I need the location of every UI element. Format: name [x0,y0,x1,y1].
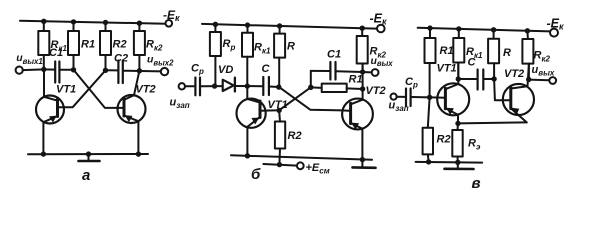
wire to u_vyh terminal (v) [529,79,550,82]
svg-text:в: в [472,175,481,192]
node: collector VT1 / Rk1 bottom [41,67,46,72]
svg-text:C2: C2 [114,53,128,65]
resistor Rk2 [134,23,163,71]
svg-text:R: R [503,47,511,59]
resistor R (b) [274,26,295,87]
node: R bottom / base VT2 coupling (v) [491,76,496,81]
svg-text:C: C [468,57,477,69]
svg-text:а: а [82,167,90,184]
svg-text:-Eк: -Eк [163,8,180,23]
wire collector node to C1 [44,68,55,70]
transistor VT1 [36,69,76,154]
node: R1 top (v) [427,25,432,30]
node: collector VT2 / Rk2 bottom [137,68,142,73]
node: Rk2 top (v) [525,28,530,33]
wire input to Cp [185,85,195,87]
node: R top (v) [491,27,496,32]
wire input to Cp (v) [397,96,406,98]
capacitor Cp (b) [191,63,204,96]
terminal u_vyh2 output [147,54,174,76]
capacitor Cp (v) [405,76,418,106]
svg-text:VT1: VT1 [56,84,76,96]
resistor R2 (v) [423,128,451,162]
node: emitter VT2 on rail [136,151,141,156]
ground (v) [445,162,474,169]
svg-text:VT2: VT2 [366,85,386,97]
svg-text:VT1: VT1 [268,99,288,111]
wire +Esm line [263,164,297,166]
resistor Rk2 (v) [522,31,550,80]
wire coupling R bottom node to base VT2 [279,87,342,110]
svg-text:Rк2: Rк2 [534,50,551,64]
wire collector VT2 vertical (v) [528,64,529,87]
svg-text:R2: R2 [288,130,302,142]
node: Rk1 top junction [41,19,46,24]
node: Rp bottom / diode anode [212,83,217,88]
svg-text:R: R [287,41,295,53]
resistor Re (v) [452,123,481,162]
wire cross-coupling R1 bottom to base VT2 [74,70,125,108]
node: Rk1 top [245,22,250,27]
node: emitter VT1 on rail [41,151,46,156]
node: C1/R1 left junction [308,85,313,90]
wire C1 right to collector VT2 line [336,70,363,73]
terminal u_vyh (b) [371,55,394,76]
node: C1 right junction [360,69,365,74]
wire base VT1 diagonal [260,87,311,110]
ground (b) [353,160,376,168]
wire top supply rail v [418,28,551,32]
wire collector VT2 vertical [362,64,364,100]
svg-text:uвых: uвых [532,64,555,78]
node: R1 bottom / cross-coupling to VT2 base [71,67,76,72]
wire C1 left [311,70,330,72]
terminal u_zap input of circuit b [170,83,190,110]
node: base VT1 / R1-R2 junction (v) [427,95,432,100]
svg-text:R2: R2 [113,39,127,51]
svg-text:R1: R1 [440,45,454,57]
resistor Rk1 [38,21,67,69]
transistor VT2 [118,71,156,154]
capacitor C (b) [262,63,271,95]
wire diode cathode to collector VT1 node [235,85,263,87]
capacitor C (v) [468,57,484,90]
node: R2 to Esm junction [277,162,282,167]
resistor Rk1 (b) [242,25,271,86]
wire C left (v) [458,78,477,80]
svg-text:-Eк: -Eк [370,12,388,27]
wire bottom rail v [416,161,483,164]
terminal -Ek of circuit v [547,17,565,37]
svg-text:б: б [251,166,261,183]
svg-text:Cр: Cр [191,63,204,77]
svg-text:Cр: Cр [405,76,418,90]
diode VD [218,64,235,92]
resistor R1 (v) [425,28,454,97]
terminal -Ek of circuit a [163,8,180,27]
terminal u_zap input (v) [389,94,409,114]
wire cross-coupling R2 bottom to base VT1 [58,70,106,107]
node: emitter VT2 / ground junction (b) [360,157,365,162]
node: ground junction [86,151,91,156]
transistor VT2 (b) [342,85,386,160]
svg-text:Rэ: Rэ [468,138,481,152]
node: R2 bottom / cross-coupling to VT1 base [103,68,108,73]
svg-text:Rк1: Rк1 [254,42,271,56]
svg-text:VT2: VT2 [136,84,156,96]
wire C1 to R1 bottom node [60,69,74,71]
svg-text:Rр: Rр [223,38,236,52]
wire bottom rail a [28,153,148,155]
transistor VT1 (v) [437,63,470,124]
node: R bottom / base coupling VT2 [276,84,281,89]
node: Rk1 top (v) [456,26,461,31]
wire collector VT1 vertical (v) [457,63,459,85]
node: R top [277,23,282,28]
node: R2 top junction [103,20,108,25]
node: emitter VT1 / Re top junction (v) [455,121,460,126]
resistor Rk1 (v) [453,29,483,79]
node: collector VT2 / output junction (v) [526,77,531,82]
node: Rk2 top [360,26,365,31]
wire bottom rail b [231,155,372,160]
node: R1 right junction [360,86,365,91]
svg-text:+Eсм: +Eсм [306,162,330,176]
terminal +Esm [297,162,330,176]
svg-text:uвых2: uвых2 [147,54,174,68]
resistor R2 (b) [275,122,302,165]
wire common emitter line (v) [458,122,527,123]
wire C right to R bottom node (v) [484,78,494,80]
resistor Rp [210,24,236,86]
wire to output terminal [363,71,372,73]
terminal u_vyh1 output [16,52,43,74]
node: collector VT1 / C left (v) [456,76,461,81]
wire coupling left vertical of C1/R1 block [310,71,312,87]
wire Cp to base VT1 (v) [411,96,437,99]
transistor VT2 (v) [503,68,534,122]
svg-text:VD: VD [218,64,233,76]
node: base VT1 / R2 junction [276,108,281,113]
svg-text:Rк2: Rк2 [146,39,163,53]
node: R1 top junction [71,19,76,24]
capacitor C2 [114,53,128,84]
svg-text:C1: C1 [327,49,341,61]
terminal u_vyh (v) [532,64,557,84]
wire Cp to Rp bottom node [201,85,223,87]
transistor VT1 (b) [237,86,288,156]
svg-text:R1: R1 [349,74,363,86]
svg-text:C1: C1 [49,47,63,59]
capacitor C1 [49,47,63,83]
svg-text:R1: R1 [81,39,95,51]
svg-text:C: C [262,63,271,75]
terminal -Ek of circuit b [370,12,388,33]
wire R2 lead (v) [428,97,430,128]
capacitor C1 (b) [327,49,341,80]
wire R2 lead down from base node [278,110,281,121]
node: Rk2 top junction [137,21,142,26]
svg-text:VT1: VT1 [437,63,457,75]
svg-text:R2: R2 [437,134,451,146]
resistor R (v) [488,30,511,79]
wire from u_vyh1 to collector VT1 node [23,68,44,71]
wire C to R bottom node [269,86,278,89]
svg-text:VT2: VT2 [504,68,524,80]
wire R bottom to base VT2 (v) [494,79,503,100]
ground [79,154,100,161]
svg-text:-Eк: -Eк [547,17,565,32]
svg-text:uзап: uзап [170,97,190,111]
wire C2 to collector VT2 node [123,70,161,73]
node: emitter VT1 on rail (b) [245,153,250,158]
wire top supply rail a [20,21,166,24]
wire R2 bottom node to C2 [106,69,118,71]
resistor R2 [100,23,127,71]
resistor R1 (b, horizontal) [311,74,363,93]
node: Rp top [213,22,218,27]
resistor R1 [68,22,95,70]
node: R2 bottom on rail (v) [426,159,431,164]
node: collector VT1 / Rk1 bottom (b) [245,83,250,88]
wire top supply rail b [202,24,376,29]
node: Re bottom / ground junction (v) [455,160,460,165]
resistor Rk2 (b) [357,28,387,72]
